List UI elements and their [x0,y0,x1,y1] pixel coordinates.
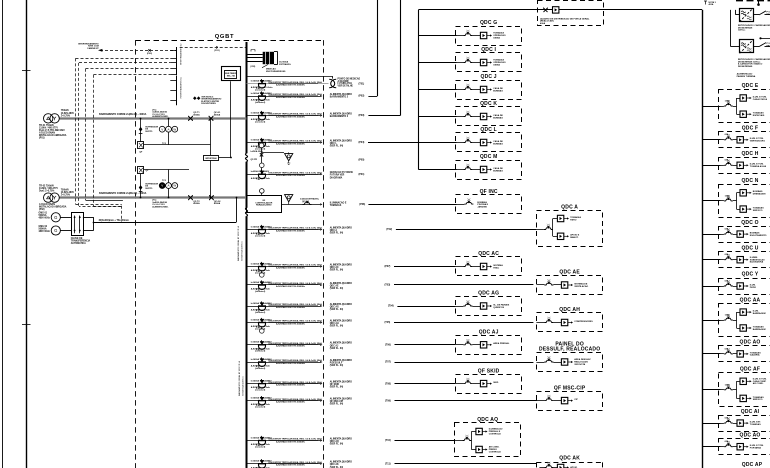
wire stub QDC H [702,165,720,167]
breaker rating label BARRAMENTO 2 [251,92,272,104]
svg-text:(extraivel): (extraivel) [255,367,265,370]
svg-text:4000A: 4000A [193,202,200,205]
panel QDC O enclosure [719,220,770,243]
svg-text:(P05): (P05) [359,159,365,162]
breaker BARRAMENTO 2 [257,91,266,101]
rectifier U2 output switch [753,43,770,48]
svg-text:QDC G: QDC G [480,20,497,26]
cable tag QDC AC [385,265,391,268]
svg-text:63A: 63A [725,133,729,136]
feeder description QDC AC [269,264,323,270]
rectifier U1 box [740,8,754,21]
svg-text:DISJUNTORES: DISJUNTORES [201,103,216,105]
sheet border outer line [2,0,4,468]
breaker QDC L [257,138,266,148]
svg-text:(T05): (T05) [385,321,391,324]
feeder description QDC A [269,227,323,233]
svg-text:DISJUNTOR TRIPOLAR 800A, REG.: DISJUNTOR TRIPOLAR 800A, REG. 0.4 A 1xIN… [269,140,323,143]
breaker QDC AQ [257,436,266,446]
description medicao [269,171,323,177]
svg-text:QF-PR: QF-PR [251,159,258,161]
svg-text:(F01): (F01) [214,50,219,52]
relay box U1 [222,67,241,81]
panel QDC H enclosure [719,151,770,174]
svg-text:PORTARIA: PORTARIA [750,446,762,449]
cable tag QDC AH [385,321,391,324]
svg-text:TOMADAS: TOMADAS [750,423,761,426]
wire stub QDC AI [702,423,720,425]
controller wire from bus1 [210,118,212,155]
cable tag BARRAMENTO 2 [359,95,365,98]
UPS enclosure bottom edge [736,1,770,6]
interlock dashed v3 [85,69,87,200]
panel QDC J internals [455,84,503,93]
cable tag BARRAMENTO 3 [359,114,365,117]
svg-text:CASA FORCA: CASA FORCA [753,98,768,101]
svg-text:DISJUNTOR TRIPOLAR 800A, REG.: DISJUNTOR TRIPOLAR 800A, REG. 0.4 A 1xIN… [269,303,323,306]
svg-text:(T02): (T02) [386,228,392,231]
breaker medicao [257,170,266,180]
svg-text:VER NOTA: VER NOTA [574,363,585,366]
panel QDC AO internals [721,347,762,357]
interlock dashed v2 [78,63,80,206]
feeder description QDC L [269,140,323,146]
svg-text:63A: 63A [725,253,729,256]
svg-text:W: W [173,127,176,131]
wire rung to QDC G [418,35,456,37]
generator G2 wire to ATS [60,230,71,232]
svg-text:INTERTRAVAMENTO DJ: INTERTRAVAMENTO DJ [180,77,183,98]
svg-text:ALIMENTA QUADRO: ALIMENTA QUADRO [330,303,352,306]
svg-text:G: G [54,215,57,220]
transformer T1 symbol [44,114,60,123]
panel QDC AA internals [721,309,766,331]
wire to destination QDC AK [395,463,537,465]
panel QDC AO enclosure [719,432,770,454]
breaker rating label QDC AC [251,262,272,274]
svg-text:QDC AG: QDC AG [330,305,339,308]
interlock dashed h2 [79,62,170,64]
wire to destination QDC AH [394,322,533,324]
breaker QF GERAL [544,7,548,12]
panel QDC AE internals [536,279,588,288]
svg-text:125Vcc: 125Vcc [738,30,746,32]
transfer controller box [204,156,219,161]
breaker rating label P.DESSULF [251,358,272,370]
svg-text:(P02): (P02) [359,95,365,98]
branch wire PR [262,148,289,163]
svg-text:BARRAMENTO COBRE 2x(80x10) ▪ 4: BARRAMENTO COBRE 2x(80x10) ▪ 4000A [99,113,147,116]
bus2 CT note [152,200,169,209]
svg-text:QDC O: QDC O [741,220,758,226]
feeder description QDC AG [269,303,323,309]
svg-text:PARALELISMO: PARALELISMO [256,204,272,207]
panel QDC AE enclosure [537,270,603,295]
svg-text:DRENAGEM: DRENAGEM [753,193,766,196]
svg-text:BARRAMENTO 2: BARRAMENTO 2 [330,95,349,98]
wire rung to QDC I [418,62,456,64]
breaker rating label reserve [251,79,273,91]
svg-text:AJUSTADO EM 70% 50/60Hz: AJUSTADO EM 70% 50/60Hz [276,142,305,145]
breaker rating label QDC AE [251,281,272,293]
riser v2 to sheet 2 [368,0,400,116]
wire rung to QDC J [418,89,456,91]
svg-text:QDC AJ: QDC AJ [479,330,499,336]
rectifier feed wires [731,10,740,47]
dc tap dot [759,37,770,39]
svg-text:ESGOTAMENTO: ESGOTAMENTO [750,234,767,237]
svg-text:(VER FL. 04): (VER FL. 04) [330,232,344,235]
paralleling breaker bracket [262,52,292,73]
panel QDC AH internals [536,317,593,326]
svg-text:ALIMENTA QUADRO: ALIMENTA QUADRO [330,461,352,464]
svg-text:(extraivel): (extraivel) [255,388,265,391]
wire to destination QDC AE [394,284,533,286]
breaker rating label QF MSC-CIP [251,396,272,408]
svg-text:ALIMENTA QUADRO: ALIMENTA QUADRO [330,319,352,322]
QGBT dashed enclosure left edge [135,40,137,468]
svg-text:DIAGRAMA: DIAGRAMA [330,176,343,179]
bus2 breaker QF-G2 [209,195,221,205]
svg-text:QDC N: QDC N [741,178,758,184]
breaker rating label QDC L [251,138,272,150]
svg-text:4000A: 4000A [214,114,221,117]
feeder row reserve wire [246,76,332,79]
panel QDC N internals [721,190,766,213]
panel QDC AI enclosure [719,409,770,432]
svg-text:BARRAMENTO 3: BARRAMENTO 3 [330,115,349,118]
svg-text:13.8kV-480V: 13.8kV-480V [61,191,75,194]
svg-text:QDC AE: QDC AE [559,270,580,276]
CT circle QDC AC [260,270,265,277]
svg-text:5000A 65kA QGBT-01: 5000A 65kA QGBT-01 [242,375,245,396]
svg-text:BOMBAS: BOMBAS [493,169,503,172]
bus2 breaker QF-T2 [189,195,201,205]
panel QDC Y internals [721,279,757,289]
feeder description QF MSC-CIP [269,398,323,404]
transformer T1 rating note [61,109,75,117]
destination label QF MSC-CIP [330,398,352,406]
interlock solid bottom [86,200,123,202]
cable tag QDC L [359,141,365,144]
bus2 meter fuse box [138,167,150,174]
destination label QDC AC [330,263,352,271]
svg-text:AR COND.: AR COND. [753,382,764,385]
breaker QDC AK [257,459,266,468]
QGBT dashed enclosure right edge [323,40,325,468]
ATS output wires [83,198,237,231]
bus1 surge arrester chain [139,118,159,133]
wire feeder QDC AH [246,321,322,323]
wire feeder QDC AJ [246,344,322,346]
svg-text:BARRAMENTO GERAL BT 480V 3F+N: BARRAMENTO GERAL BT 480V 3F+N [237,225,240,261]
svg-text:13.8kV-480V: 13.8kV-480V [61,112,75,115]
svg-text:QF SKID: QF SKID [478,368,500,374]
bus1 meter fuse box [138,142,144,154]
QGBT label [215,34,235,40]
cable tag QDC AG [388,305,394,308]
wire stub QDC F [702,139,720,141]
panel QDC L enclosure [456,127,522,151]
ATS output cable tag [99,219,129,222]
bus1 breaker QF-G1 [209,112,221,121]
svg-text:(T06): (T06) [385,344,391,347]
feeder row medicao wire [246,173,322,175]
svg-text:ALIMENTA MED.: ALIMENTA MED. [152,205,169,208]
svg-text:63A: 63A [725,347,729,350]
wire stub QDC E [702,106,720,108]
svg-text:ALIMENTA QUADRO: ALIMENTA QUADRO [330,263,352,266]
rectifier U2 label [738,58,770,68]
panel QDC AA enclosure [719,297,770,336]
svg-text:(VER FL. 04): (VER FL. 04) [330,325,344,328]
panel QDC AQ enclosure [455,417,521,456]
svg-text:QDC Y: QDC Y [742,272,759,278]
panel QDC F internals [721,133,766,143]
wire feeder QDC AQ [246,439,322,441]
svg-text:5000A 65kA QGBT-01: 5000A 65kA QGBT-01 [241,240,244,261]
wire stub QDC AA [702,320,720,322]
svg-text:QDC K: QDC K [480,101,497,107]
interlock dashed h1 [76,58,171,60]
feeder description QF SKID [269,381,323,387]
svg-text:ELEVADORA: ELEVADORA [750,261,764,264]
svg-text:QDC L: QDC L [480,127,497,133]
panel QDC AJ enclosure [456,330,522,355]
reserve destination label [338,77,361,87]
panel QF INC internals [455,199,488,209]
generator G1 wire to ATS [60,217,71,219]
panel QDC L internals [455,137,503,146]
svg-text:SKID: SKID [493,382,499,384]
destination label QDC L [330,139,352,147]
panel QDC AK partial internals [537,462,603,468]
svg-text:BOMBAS: BOMBAS [493,89,503,92]
destination label QDC AE [330,282,352,290]
wire feeder QF MSC-CIP [246,400,322,402]
svg-text:ALIMENTA QUADRO: ALIMENTA QUADRO [330,226,352,229]
destination label QF SKID [330,381,352,389]
svg-text:QDC AQ: QDC AQ [330,440,339,443]
svg-text:BOMBAS: BOMBAS [493,142,503,145]
breaker rating label QDC AJ [251,341,272,353]
feeder description BARRAMENTO 2 [269,93,323,99]
generator G2 label [39,226,51,233]
controller box G2 [247,189,282,213]
svg-text:(T04): (T04) [388,305,394,308]
svg-text:QF-INC: QF-INC [302,201,310,203]
svg-text:(T10): (T10) [385,439,391,442]
svg-text:(VER FL. 04): (VER FL. 04) [330,403,344,406]
breaker rating label QDC AK [251,460,272,468]
svg-text:750kVA: 750kVA [61,109,69,112]
svg-text:ALIMENTA QUADRO: ALIMENTA QUADRO [330,93,352,96]
panel QDC AF enclosure [719,367,770,407]
svg-text:400A: 400A [709,3,714,6]
wire to destination QF MSC-CIP [395,400,537,402]
rectifier U1 output switch [753,11,770,16]
interlock dashed v4 [93,75,95,206]
svg-text:GERACAO FV 500kW: GERACAO FV 500kW [330,171,354,174]
svg-text:QDC I: QDC I [481,47,496,53]
svg-text:ALIMENTA QUADRO: ALIMENTA QUADRO [330,398,352,401]
wire rung to QDC M [418,169,456,171]
feeder description P.DESSULF [269,359,323,365]
generator G1 symbol [51,213,60,222]
sheet border inner line [26,0,28,468]
destination label QDC AH [330,319,352,327]
breaker QDC AE [257,280,266,290]
svg-text:QDC AC: QDC AC [478,251,499,257]
svg-text:SURTO: SURTO [145,131,152,133]
panel QDC H internals [721,159,767,169]
svg-text:125A: 125A [725,313,730,316]
interlock dashed bottom h1 [76,205,122,207]
svg-text:QDC AG: QDC AG [478,291,499,297]
svg-text:QDC AQ: QDC AQ [477,417,498,423]
controller wire to bus2 [210,160,212,197]
svg-text:AJUSTE Ltd 0.9xIn: AJUSTE Ltd 0.9xIn [251,177,271,180]
panel QDC G internals [455,30,506,40]
svg-text:A: A [167,184,169,188]
bus2 surge arrester chain [139,174,159,198]
generator G1 label [39,213,51,220]
svg-text:QDC AK: QDC AK [559,456,580,462]
wire feeder QDC L [246,141,322,143]
transformer T1 nameplate text [39,124,67,140]
breaker rating label QF SKID [251,379,272,391]
svg-text:DISJUNTOR TRIPOLAR 800A, REG.: DISJUNTOR TRIPOLAR 800A, REG. 0.4 A 1xIN… [269,264,323,267]
svg-text:ALIMENTA QUADRO: ALIMENTA QUADRO [330,112,352,115]
cable tag PR [359,159,365,162]
svg-text:W: W [173,184,176,188]
svg-text:USINA: USINA [493,63,500,66]
svg-text:QGBT: QGBT [215,34,235,40]
svg-text:AJUSTADO EM 70% 50/60Hz: AJUSTADO EM 70% 50/60Hz [276,401,305,404]
breaker QDC AC [257,262,266,272]
feeder description QDC AQ [269,438,323,444]
panel QF MSC-CIP internals [536,395,578,404]
relay wire down [219,81,231,157]
panel QDC AG enclosure [456,291,522,316]
svg-text:(extraivel): (extraivel) [255,405,265,408]
svg-text:INTERTRAV.: INTERTRAV. [205,157,217,160]
svg-text:G: G [54,228,57,233]
svg-text:BARRAGEM: BARRAGEM [753,312,766,315]
svg-text:QDC F: QDC F [742,126,759,132]
svg-text:(extraivel): (extraivel) [255,101,265,104]
panel QDC M internals [455,164,503,173]
ATS transfer switch box [72,213,84,236]
panel QF INC enclosure [456,189,522,214]
svg-text:AJUSTADO EM 70% 50/60Hz: AJUSTADO EM 70% 50/60Hz [276,115,305,118]
wire stub QDC AF [702,389,720,391]
svg-text:(T09): (T09) [385,399,391,402]
svg-text:(P02): (P02) [39,209,45,211]
svg-text:(T01): (T01) [359,82,365,85]
panel QDC AG internals [455,300,509,309]
cable tag medicao [359,173,365,176]
panel QDC AO internals [721,440,764,450]
interlock arrow to remote [78,42,176,55]
wire to destination P.DESSULF [395,362,534,364]
breaker rating label QDC A [251,225,272,237]
svg-text:QDC J: QDC J [481,74,497,80]
interlock dashed h3 [86,68,171,70]
rectifier U1 label [738,24,770,32]
svg-text:DISJUNTOR TRIPOLAR 800A, REG.: DISJUNTOR TRIPOLAR 800A, REG. 0.4 A 1xIN… [269,438,323,441]
panel QDC U internals [721,253,765,264]
panel QDC AI internals [721,417,762,427]
svg-text:QDC M: QDC M [480,154,498,160]
svg-text:In630A 65kA/480V: In630A 65kA/480V [251,170,270,173]
feeder description QDC AJ [269,342,323,348]
svg-text:ALIMENTA QUADRO: ALIMENTA QUADRO [330,437,352,440]
destination label QDC A [330,226,352,234]
transformer T1 bus tag [99,113,147,116]
wire stub QDC Y [702,286,720,288]
svg-text:(VER FL. 04): (VER FL. 04) [330,287,344,290]
wire to destination QDC AJ [395,344,456,346]
breaker reserve [257,79,266,89]
panel QDC AP label [742,462,763,468]
svg-text:DESSULF, REALOCADO: DESSULF, REALOCADO [539,347,600,353]
wire stub QDC N [702,200,720,202]
svg-text:480V 60Hz: 480V 60Hz [39,230,51,233]
svg-text:TOMADAS: TOMADAS [330,204,342,207]
svg-text:QDC AO: QDC AO [739,432,760,438]
bus2 meter wire [144,169,189,197]
svg-text:BARRAGEM: BARRAGEM [753,328,766,331]
fuse box QF GERAL [553,7,559,13]
cable tag QDC AJ [385,344,391,347]
svg-text:PAINEL: PAINEL [767,44,770,47]
wire to destination QDC AG [397,306,455,308]
panel QDC E enclosure [719,83,770,122]
wire feeder QDC AC [246,265,322,267]
svg-text:(VER FL. 04): (VER FL. 04) [330,269,344,272]
CT circle QDC AH [260,326,265,333]
svg-text:QDC A: QDC A [561,205,578,211]
wire feeder BARRAMENTO 3 [246,114,322,116]
destination label BARRAMENTO 3 [330,112,352,118]
svg-text:BARRAMENTO COBRE 2x(80x10) ▪ 4: BARRAMENTO COBRE 2x(80x10) ▪ 4000A [99,192,147,195]
svg-text:ALIMENTA QUADRO: ALIMENTA QUADRO [330,342,352,345]
svg-text:QDC AP: QDC AP [742,462,763,468]
breaker QF SKID [257,379,266,389]
wire feeder QF SKID [246,383,322,385]
wire to QF INC box [368,204,456,206]
svg-text:A: A [167,127,169,131]
svg-text:QDC AH: QDC AH [559,307,580,313]
panel QDC O internals [721,228,767,238]
svg-text:PAINEL: PAINEL [767,13,770,16]
svg-text:AJUSTADO EM 70% 50/60Hz: AJUSTADO EM 70% 50/60Hz [276,322,305,325]
svg-text:(F03): (F03) [147,53,152,55]
svg-text:AJUSTADO EM 70% 50/60Hz: AJUSTADO EM 70% 50/60Hz [276,266,305,269]
svg-text:(VER FL. 04): (VER FL. 04) [330,145,344,148]
svg-text:SEL-751: SEL-751 [227,76,236,78]
wire rung to QDC K [418,116,456,118]
bus flexible joint upper [244,153,250,161]
panel QDC AJ internals [455,339,510,348]
bus1 meters VAW [159,126,177,132]
svg-text:QDC AJ: QDC AJ [330,344,339,347]
svg-text:QDC AA: QDC AA [740,297,761,303]
svg-text:(T03): (T03) [385,284,391,287]
svg-text:(P07): (P07) [385,265,391,268]
breaker QF MSC-CIP [257,396,266,406]
